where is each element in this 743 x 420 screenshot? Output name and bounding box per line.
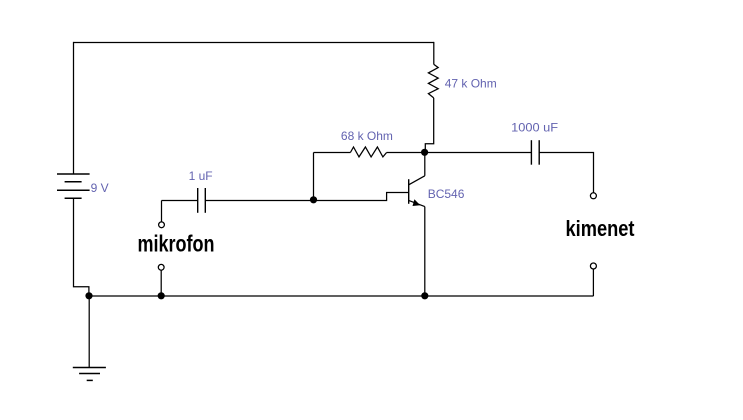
- wire: bottom ground rail: [89, 295, 594, 297]
- resistor R2 68 k Ohm: [350, 147, 386, 157]
- svg-text:BC546: BC546: [428, 187, 465, 201]
- junction: emitter ground node: [421, 292, 428, 299]
- wire: collector node to C2: [425, 152, 532, 154]
- wire: collector riser: [424, 152, 426, 176]
- svg-text:1 uF: 1 uF: [189, 169, 213, 183]
- wire: mikrofon plus lead: [161, 201, 163, 223]
- wire: battery positive lead: [73, 42, 75, 174]
- terminal: kimenet minus: [590, 263, 596, 269]
- wire: R2 to collector node: [387, 152, 425, 154]
- terminal: kimenet plus: [590, 193, 596, 199]
- wire: emitter drop: [424, 207, 426, 296]
- svg-text:47 k Ohm: 47 k Ohm: [445, 76, 497, 90]
- junction: base node: [310, 196, 317, 203]
- svg-text:kimenet: kimenet: [566, 216, 635, 241]
- wire: input to C1: [162, 200, 198, 202]
- junction: mikrofon ground node: [158, 292, 165, 299]
- capacitor C1: [198, 188, 206, 213]
- capacitor C2: [531, 140, 539, 165]
- svg-text:1000 uF: 1000 uF: [511, 120, 558, 134]
- terminal: mikrofon plus: [159, 222, 165, 228]
- terminal: mikrofon minus: [158, 264, 164, 270]
- wire: R1 to collector node with jog: [425, 98, 433, 152]
- wire: ground stem: [88, 296, 90, 368]
- resistor R1 47 k Ohm: [428, 64, 438, 98]
- junction: collector node: [421, 149, 428, 156]
- wire: C1 to base node: [205, 200, 313, 202]
- wire: base wire with jog: [314, 193, 409, 201]
- wire: C2 to kimenet plus: [539, 153, 593, 193]
- wire: feedback riser: [313, 153, 315, 201]
- wire: V+ top rail: [74, 42, 435, 44]
- junction: battery-ground node: [85, 292, 92, 299]
- svg-text:mikrofon: mikrofon: [138, 231, 215, 257]
- wire: kimenet minus lead: [592, 269, 594, 296]
- svg-text:9 V: 9 V: [91, 181, 109, 195]
- wire: mikrofon minus lead: [160, 270, 162, 296]
- battery B1: [57, 174, 90, 198]
- svg-text:68 k Ohm: 68 k Ohm: [341, 129, 393, 143]
- ground: [73, 368, 106, 381]
- wire: feedback top to R2: [314, 152, 351, 154]
- transistor Q1 BC546: [409, 176, 425, 207]
- wire: V+ drop to R1: [433, 42, 435, 64]
- wire: battery negative lead with jog: [74, 198, 89, 296]
